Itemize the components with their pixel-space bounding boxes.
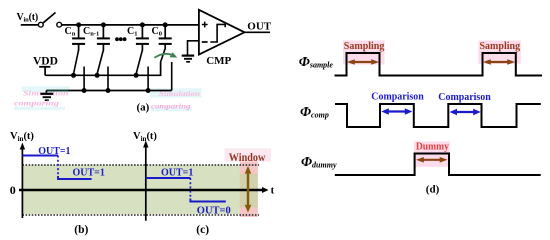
ground post of C0 switch [171, 62, 173, 91]
hysteresis glyph [210, 24, 225, 42]
wire VDD bus [45, 62, 161, 75]
svg-text:comparing: comparing [14, 99, 60, 107]
svg-text:Φdummy: Φdummy [301, 155, 337, 170]
plus input mark [202, 22, 208, 28]
node dot Cn [76, 22, 81, 27]
switch S1 arm [43, 13, 55, 23]
svg-text:Comparison: Comparison [438, 92, 491, 103]
wire ground bus [46, 90, 171, 92]
svg-text:Sampling: Sampling [480, 41, 521, 52]
waveform c step 2 [190, 199, 225, 202]
node dot gnd bus Cn [82, 88, 87, 93]
switch arm Cn to VDD [74, 50, 79, 74]
svg-text:Comparison: Comparison [371, 91, 424, 102]
switch S1 right contact [57, 22, 62, 27]
svg-text:Sampling: Sampling [344, 41, 385, 52]
axis b vertical [21, 147, 23, 218]
ground post of C1 switch [147, 67, 149, 91]
window double arrow [245, 166, 252, 213]
svg-text:VDD: VDD [33, 56, 58, 68]
window pink stripe top [240, 162, 258, 175]
svg-text:(d): (d) [426, 183, 440, 195]
waveform b step 1 [22, 155, 58, 157]
capacitor C0 [159, 25, 172, 50]
blue arrow comparison 2 [450, 109, 481, 115]
svg-text:Vin(t): Vin(t) [10, 131, 34, 143]
svg-text:0: 0 [10, 183, 16, 197]
svg-text:C1: C1 [127, 26, 137, 38]
waveform phi_comp [335, 104, 541, 127]
waveform b step 2 [58, 176, 92, 179]
node dot C1 [140, 22, 145, 27]
waveform c step 1 [146, 177, 191, 179]
op-amp CMP triangle [199, 10, 245, 55]
window band [22, 165, 257, 214]
brown arrow sampling 1 [347, 59, 379, 65]
ghost watermark left: Simulation [22, 86, 70, 97]
svg-text:(b): (b) [74, 224, 88, 236]
window label pink box [225, 148, 272, 161]
ground symbol CMP [182, 56, 195, 62]
band top dotted line [22, 164, 259, 166]
switch S1 left contact [38, 22, 43, 27]
waveform phi_dummy [335, 154, 541, 176]
svg-text:Vin(t): Vin(t) [133, 131, 157, 143]
window pink stripe bottom [240, 208, 258, 218]
switch arm Cn-1 to VDD [97, 50, 103, 74]
svg-text:Φsample: Φsample [299, 55, 334, 70]
switch arm C0 [161, 49, 165, 62]
pink box Sampling 1 [343, 41, 385, 65]
wire minus input [188, 41, 199, 55]
svg-text:comparing: comparing [151, 102, 191, 110]
node dot C0 [163, 22, 168, 27]
node dot gnd bus C1 [146, 88, 151, 93]
ground post of Cn switch [83, 67, 85, 91]
green switching arrow at C0 [155, 54, 175, 58]
ghost watermark right: Simulation [150, 88, 202, 98]
blue arrow comparison 1 [381, 108, 412, 114]
ellipsis dots [115, 37, 126, 41]
waveform phi_sample [335, 53, 543, 76]
wire ground bus green tint [48, 90, 69, 92]
svg-text:(c): (c) [196, 224, 209, 236]
svg-text:OUT=0: OUT=0 [197, 206, 231, 217]
window pink stripe middle [240, 174, 258, 208]
t axis [19, 189, 263, 191]
pink box Sampling 2 [478, 41, 521, 64]
svg-text:t: t [271, 186, 275, 197]
node dot Cn-1 [101, 22, 106, 27]
svg-text:OUT: OUT [247, 20, 271, 32]
node dot gnd bus Cn-1 [106, 88, 111, 93]
svg-text:OUT=1: OUT=1 [38, 146, 70, 157]
brown arrow dummy [416, 157, 448, 163]
svg-text:OUT=1: OUT=1 [73, 168, 105, 179]
svg-text:Cn-1: Cn-1 [83, 26, 99, 38]
svg-text:Vin(t): Vin(t) [17, 12, 38, 24]
node dot VDD bus Cn-1 [95, 73, 100, 78]
capacitor C1 [136, 25, 149, 51]
VDD stub [44, 67, 46, 76]
wire OUT [245, 31, 271, 33]
switch arm C1 to VDD [136, 50, 142, 74]
svg-text:Φcomp: Φcomp [300, 105, 329, 120]
svg-text:Dummy: Dummy [416, 142, 449, 153]
VDD symbol bar [39, 66, 50, 68]
svg-text:Window: Window [229, 150, 266, 164]
svg-text:Cn: Cn [65, 26, 76, 38]
svg-text:CMP: CMP [206, 55, 231, 67]
ghost watermark right: comparing [151, 102, 192, 111]
node dot VDD bus Cn [71, 73, 76, 78]
minus input mark [202, 41, 208, 43]
pink box Dummy [414, 142, 450, 167]
ground symbol left [40, 91, 53, 101]
brown arrow sampling 2 [483, 59, 515, 65]
svg-text:OUT=1: OUT=1 [161, 168, 193, 179]
capacitor Cn-1 [97, 25, 110, 51]
ground post of Cn-1 switch [107, 67, 109, 91]
svg-text:Simulation: Simulation [159, 90, 200, 98]
svg-text:(a): (a) [137, 102, 150, 114]
axis c vertical [145, 145, 147, 221]
ghost watermark left: comparing [14, 99, 65, 110]
capacitor Cn [72, 25, 85, 51]
waveform b dotted fall [57, 156, 59, 177]
wire top rail [62, 24, 199, 26]
wire Vin stub [21, 24, 39, 26]
band bottom dotted line [22, 214, 259, 216]
svg-text:C0: C0 [152, 26, 162, 38]
waveform c dotted fall [189, 178, 191, 199]
node dot VDD bus C1 [134, 73, 139, 78]
